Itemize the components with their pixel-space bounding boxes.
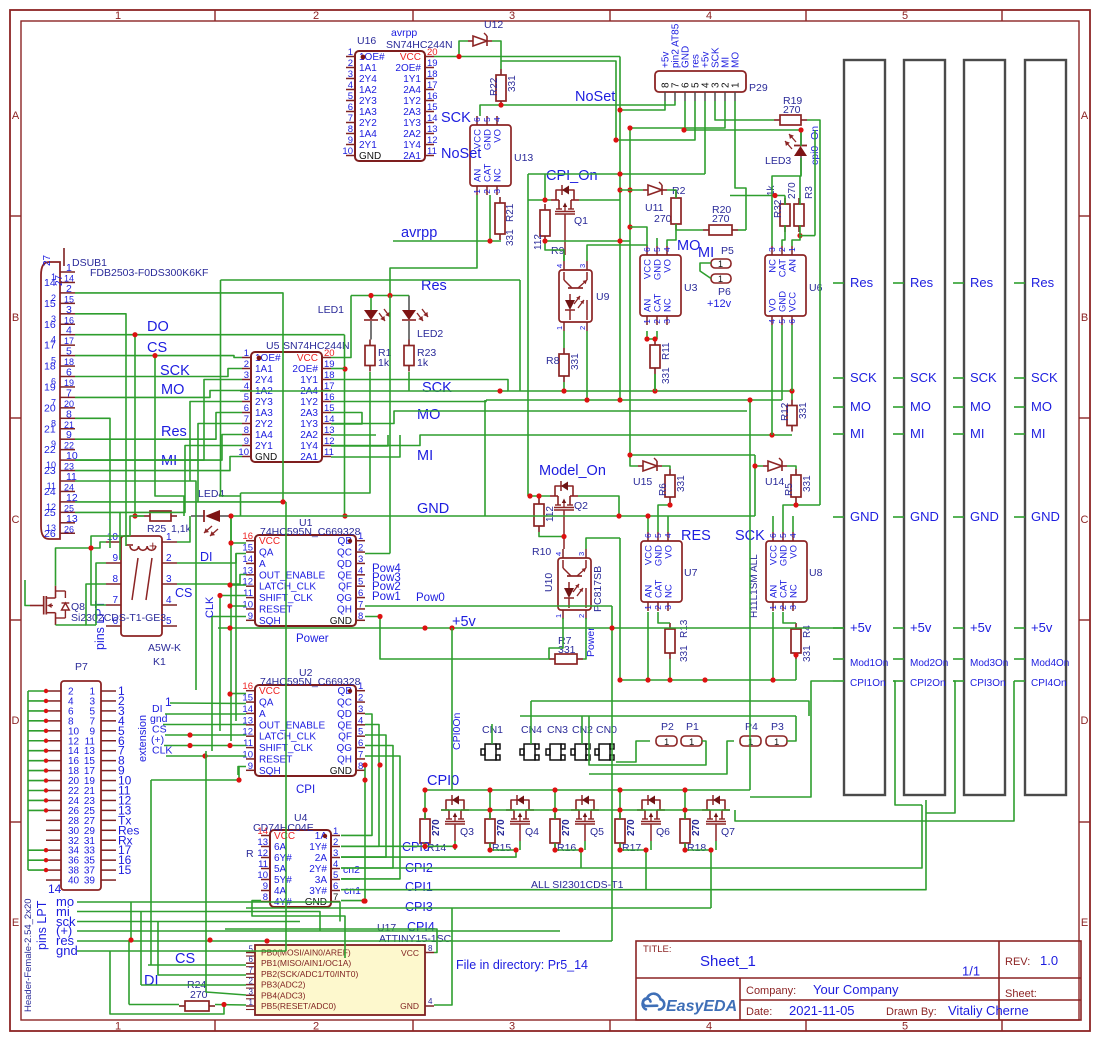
svg-text:7: 7 bbox=[358, 749, 363, 760]
svg-text:1: 1 bbox=[787, 247, 797, 252]
svg-text:Drawn By:: Drawn By: bbox=[886, 1006, 937, 1018]
IC U2 74HC595N bbox=[255, 685, 356, 776]
svg-text:4: 4 bbox=[555, 264, 564, 268]
resistor R2 bbox=[675, 192, 677, 198]
svg-text:2A2: 2A2 bbox=[403, 129, 421, 140]
svg-text:1.0: 1.0 bbox=[1040, 953, 1058, 968]
svg-text:MO: MO bbox=[910, 399, 931, 414]
svg-text:4: 4 bbox=[767, 319, 777, 324]
svg-text:11: 11 bbox=[243, 738, 253, 749]
svg-text:MO: MO bbox=[970, 399, 991, 414]
svg-text:SCK: SCK bbox=[422, 380, 452, 396]
svg-text:2A2: 2A2 bbox=[300, 430, 318, 441]
wires U2 area bbox=[165, 713, 246, 715]
svg-text:Q4: Q4 bbox=[525, 826, 539, 838]
svg-text:10: 10 bbox=[242, 599, 253, 610]
svg-text:15: 15 bbox=[118, 863, 132, 877]
svg-text:DI: DI bbox=[144, 973, 159, 989]
svg-text:4A: 4A bbox=[274, 886, 287, 897]
svg-text:LED3: LED3 bbox=[765, 155, 791, 167]
svg-text:2: 2 bbox=[358, 543, 363, 554]
svg-text:CPI4On: CPI4On bbox=[1031, 678, 1067, 689]
diode U11 bbox=[648, 185, 662, 195]
svg-text:15: 15 bbox=[242, 543, 253, 554]
svg-text:1Y3: 1Y3 bbox=[300, 419, 318, 430]
title block bbox=[636, 941, 1081, 1020]
svg-text:4: 4 bbox=[51, 335, 56, 345]
svg-text:P29: P29 bbox=[749, 82, 768, 94]
svg-text:2: 2 bbox=[348, 58, 353, 69]
wires U3 U6 opto tops and bottoms bbox=[630, 227, 647, 246]
svg-text:4: 4 bbox=[788, 533, 798, 538]
connector DSUB1 bbox=[41, 262, 60, 539]
svg-text:17: 17 bbox=[427, 80, 438, 91]
svg-text:3: 3 bbox=[358, 704, 363, 715]
svg-text:C: C bbox=[1081, 514, 1089, 526]
svg-text:3: 3 bbox=[166, 574, 172, 585]
svg-text:R25: R25 bbox=[147, 523, 166, 535]
svg-text:U14: U14 bbox=[765, 476, 784, 488]
svg-text:2: 2 bbox=[358, 693, 363, 704]
svg-text:1Y1: 1Y1 bbox=[403, 74, 421, 85]
svg-text:15: 15 bbox=[427, 102, 438, 113]
svg-text:QF: QF bbox=[338, 582, 352, 593]
svg-text:MO: MO bbox=[161, 382, 184, 398]
opto U10 PC817SB bbox=[558, 558, 591, 610]
svg-text:R4: R4 bbox=[802, 625, 813, 638]
relay K1 A5W-K bbox=[121, 536, 162, 636]
svg-text:MI: MI bbox=[910, 426, 924, 441]
svg-text:1,1k: 1,1k bbox=[171, 523, 192, 535]
svg-text:2Y4: 2Y4 bbox=[255, 375, 273, 386]
svg-text:SN74HC244N: SN74HC244N bbox=[283, 340, 350, 352]
svg-text:A: A bbox=[259, 709, 266, 720]
svg-text:D: D bbox=[12, 715, 20, 727]
svg-text:1Y2: 1Y2 bbox=[300, 397, 318, 408]
svg-text:270: 270 bbox=[561, 819, 572, 836]
svg-text:1A4: 1A4 bbox=[359, 129, 377, 140]
svg-text:270: 270 bbox=[496, 819, 507, 836]
svg-text:2: 2 bbox=[313, 1021, 319, 1033]
resistor R1 1k bbox=[369, 340, 371, 346]
svg-text:VO: VO bbox=[664, 545, 675, 559]
svg-text:1: 1 bbox=[348, 47, 353, 58]
svg-text:Q7: Q7 bbox=[721, 826, 735, 838]
svg-text:gnd: gnd bbox=[56, 943, 78, 958]
transistor Q3 bbox=[441, 809, 449, 811]
svg-text:8: 8 bbox=[244, 425, 249, 436]
svg-text:QE: QE bbox=[338, 720, 353, 731]
svg-text:6: 6 bbox=[787, 319, 797, 324]
svg-text:CPI3: CPI3 bbox=[405, 900, 433, 914]
wires U5 right side to MO/MI rows bbox=[331, 368, 345, 370]
svg-text:SQH: SQH bbox=[259, 616, 281, 627]
svg-text:LATCH_CLK: LATCH_CLK bbox=[259, 732, 316, 743]
svg-text:2: 2 bbox=[244, 359, 249, 370]
module slot rectangles bbox=[844, 60, 885, 795]
svg-text:7: 7 bbox=[249, 966, 254, 975]
svg-text:2A1: 2A1 bbox=[403, 151, 421, 162]
svg-text:VCC: VCC bbox=[400, 52, 421, 63]
svg-text:FDB2503-F0DS300K6KF: FDB2503-F0DS300K6KF bbox=[90, 267, 208, 279]
svg-text:3: 3 bbox=[244, 370, 249, 381]
svg-text:4: 4 bbox=[663, 533, 673, 538]
svg-text:NC: NC bbox=[664, 584, 675, 598]
svg-text:12: 12 bbox=[242, 727, 253, 738]
svg-text:5: 5 bbox=[249, 945, 254, 954]
svg-text:6: 6 bbox=[333, 881, 338, 892]
svg-text:cn2: cn2 bbox=[343, 864, 360, 876]
resistor R23 1k bbox=[408, 340, 410, 346]
svg-text:EasyEDA: EasyEDA bbox=[666, 998, 737, 1015]
svg-text:12: 12 bbox=[427, 135, 438, 146]
transistor Q4 bbox=[506, 809, 514, 811]
svg-text:1: 1 bbox=[664, 737, 669, 748]
svg-text:5: 5 bbox=[358, 577, 363, 588]
svg-text:5: 5 bbox=[166, 616, 172, 627]
svg-text:2Y1: 2Y1 bbox=[255, 441, 273, 452]
svg-text:CD74HC04E: CD74HC04E bbox=[253, 822, 314, 834]
svg-text:File in directory: Pr5_14: File in directory: Pr5_14 bbox=[456, 958, 588, 972]
svg-text:13: 13 bbox=[257, 837, 268, 848]
svg-text:13: 13 bbox=[46, 523, 56, 533]
svg-text:10: 10 bbox=[342, 146, 353, 157]
svg-text:331: 331 bbox=[798, 402, 809, 419]
svg-text:A: A bbox=[1081, 110, 1089, 122]
svg-text:CLK: CLK bbox=[204, 596, 216, 618]
svg-text:3: 3 bbox=[578, 264, 587, 268]
svg-text:Sheet:: Sheet: bbox=[1005, 988, 1037, 1000]
svg-text:QA: QA bbox=[259, 548, 274, 559]
svg-text:5: 5 bbox=[244, 392, 249, 403]
svg-text:MI: MI bbox=[698, 245, 714, 261]
svg-text:3: 3 bbox=[577, 552, 586, 556]
svg-text:A: A bbox=[259, 559, 266, 570]
svg-text:VO: VO bbox=[789, 545, 800, 559]
svg-text:1Y1: 1Y1 bbox=[300, 375, 318, 386]
svg-text:TITLE:: TITLE: bbox=[643, 944, 672, 955]
diode U14 bbox=[768, 461, 782, 471]
svg-text:Q5: Q5 bbox=[590, 826, 604, 838]
wires DSUB to mid bbox=[75, 293, 283, 502]
opto U8 bbox=[766, 541, 807, 602]
svg-text:Mod3On: Mod3On bbox=[970, 658, 1008, 669]
svg-text:4: 4 bbox=[348, 80, 353, 91]
svg-text:QC: QC bbox=[337, 698, 352, 709]
svg-text:1Y4: 1Y4 bbox=[403, 140, 421, 151]
svg-text:PB5(RESET/ADC0): PB5(RESET/ADC0) bbox=[261, 1001, 336, 1011]
svg-text:cn1: cn1 bbox=[344, 885, 361, 897]
svg-text:3: 3 bbox=[348, 69, 353, 80]
svg-text:18: 18 bbox=[427, 69, 438, 80]
svg-text:5: 5 bbox=[348, 91, 353, 102]
svg-text:SCK: SCK bbox=[970, 370, 997, 385]
svg-text:Sheet_1: Sheet_1 bbox=[700, 953, 756, 970]
svg-text:MO: MO bbox=[731, 52, 742, 68]
svg-text:PB4(ADC3): PB4(ADC3) bbox=[261, 990, 306, 1000]
svg-text:CS: CS bbox=[147, 340, 167, 356]
svg-text:6: 6 bbox=[643, 533, 653, 538]
svg-text:1/1: 1/1 bbox=[962, 964, 980, 979]
svg-text:10: 10 bbox=[242, 749, 253, 760]
resistor R32 1k bbox=[784, 198, 786, 204]
svg-text:QD: QD bbox=[337, 559, 352, 570]
resistor R16 270 bbox=[554, 813, 556, 819]
svg-text:VCC: VCC bbox=[788, 292, 799, 312]
svg-text:9: 9 bbox=[51, 439, 56, 449]
svg-text:NC: NC bbox=[663, 298, 674, 312]
svg-text:AN: AN bbox=[788, 259, 799, 272]
svg-text:2A: 2A bbox=[315, 853, 328, 864]
svg-text:B: B bbox=[12, 312, 19, 324]
svg-text:270: 270 bbox=[431, 819, 442, 836]
svg-text:9: 9 bbox=[248, 761, 253, 772]
resistor R3 270 bbox=[798, 198, 800, 204]
IC U1 74HC595N bbox=[255, 535, 356, 626]
svg-text:5: 5 bbox=[333, 870, 338, 881]
svg-text:16: 16 bbox=[427, 91, 438, 102]
svg-text:1k: 1k bbox=[378, 357, 390, 369]
svg-text:16: 16 bbox=[242, 531, 253, 542]
svg-text:9: 9 bbox=[66, 429, 72, 441]
svg-text:2: 2 bbox=[778, 605, 788, 610]
resistor R12 331 bbox=[791, 400, 793, 406]
svg-text:6: 6 bbox=[348, 102, 353, 113]
svg-text:331: 331 bbox=[802, 475, 813, 492]
LED LED3 bbox=[800, 131, 802, 146]
svg-text:331: 331 bbox=[507, 75, 518, 92]
svg-text:CPI4: CPI4 bbox=[407, 920, 435, 934]
svg-text:R17: R17 bbox=[622, 842, 641, 854]
svg-text:5A: 5A bbox=[274, 864, 287, 875]
svg-text:GND: GND bbox=[400, 1001, 419, 1011]
wires Q1 region verticals bbox=[796, 504, 820, 506]
svg-text:SCK: SCK bbox=[910, 370, 937, 385]
svg-text:2A4: 2A4 bbox=[403, 85, 421, 96]
svg-text:QD: QD bbox=[337, 709, 352, 720]
svg-text:1Y2: 1Y2 bbox=[403, 96, 421, 107]
transistor Q5 bbox=[571, 809, 579, 811]
svg-text:9: 9 bbox=[244, 436, 249, 447]
svg-text:MO: MO bbox=[1031, 399, 1052, 414]
svg-text:SCK: SCK bbox=[850, 370, 877, 385]
transistor Q8 SI2302 bbox=[30, 605, 44, 607]
transistor Q1 bbox=[551, 199, 559, 201]
svg-text:26: 26 bbox=[64, 524, 74, 534]
svg-text:3: 3 bbox=[767, 247, 777, 252]
svg-text:3: 3 bbox=[249, 987, 254, 996]
svg-text:112: 112 bbox=[533, 234, 544, 250]
svg-text:PC817SB: PC817SB bbox=[592, 566, 604, 612]
svg-text:8: 8 bbox=[358, 611, 363, 622]
svg-text:U5: U5 bbox=[266, 340, 280, 352]
svg-text:39: 39 bbox=[84, 876, 96, 887]
svg-text:9: 9 bbox=[348, 135, 353, 146]
diode U12 bbox=[473, 36, 487, 46]
svg-text:U8: U8 bbox=[809, 567, 823, 579]
svg-text:4: 4 bbox=[554, 552, 563, 556]
svg-text:5: 5 bbox=[66, 346, 72, 358]
svg-text:GND: GND bbox=[970, 509, 999, 524]
svg-text:2: 2 bbox=[482, 189, 492, 194]
svg-text:3: 3 bbox=[662, 319, 672, 324]
svg-text:1Y#: 1Y# bbox=[309, 842, 327, 853]
diode U15 bbox=[643, 461, 657, 471]
svg-text:1: 1 bbox=[249, 998, 254, 1007]
svg-text:2: 2 bbox=[653, 605, 663, 610]
svg-text:5: 5 bbox=[777, 319, 787, 324]
svg-text:4: 4 bbox=[358, 715, 363, 726]
svg-text:GND: GND bbox=[359, 151, 381, 162]
IC U5 SN74HC244N bbox=[251, 352, 322, 462]
svg-text:MI: MI bbox=[1031, 426, 1045, 441]
svg-text:QG: QG bbox=[336, 743, 352, 754]
svg-text:NC: NC bbox=[789, 584, 800, 598]
svg-text:331: 331 bbox=[505, 229, 516, 246]
resistor R14 270 bbox=[424, 813, 426, 819]
svg-text:MI: MI bbox=[850, 426, 864, 441]
svg-text:avrpp: avrpp bbox=[391, 27, 417, 39]
svg-text:7: 7 bbox=[244, 414, 249, 425]
svg-text:6: 6 bbox=[51, 377, 56, 387]
svg-text:3: 3 bbox=[663, 605, 673, 610]
svg-text:PB3(ADC2): PB3(ADC2) bbox=[261, 980, 306, 990]
svg-text:OUT_ENABLE: OUT_ENABLE bbox=[259, 570, 325, 581]
svg-text:1: 1 bbox=[244, 348, 249, 359]
LED LED2 bbox=[402, 310, 416, 320]
svg-text:11: 11 bbox=[258, 859, 268, 870]
svg-text:P5: P5 bbox=[721, 245, 734, 257]
svg-text:GND: GND bbox=[417, 501, 449, 517]
svg-text:2: 2 bbox=[777, 247, 787, 252]
svg-text:R8: R8 bbox=[546, 355, 560, 367]
svg-text:1: 1 bbox=[731, 82, 742, 88]
svg-text:LED1: LED1 bbox=[318, 304, 344, 316]
svg-text:P4: P4 bbox=[745, 721, 758, 733]
svg-text:40: 40 bbox=[68, 876, 80, 887]
resistor R18 270 bbox=[684, 813, 686, 819]
svg-text:16: 16 bbox=[242, 681, 253, 692]
svg-text:CPI: CPI bbox=[296, 784, 315, 796]
svg-text:7: 7 bbox=[348, 113, 353, 124]
IC U4 CD74HC04E bbox=[270, 830, 331, 907]
svg-text:3: 3 bbox=[51, 314, 56, 324]
svg-text:5: 5 bbox=[482, 117, 492, 122]
resistor R24 270 bbox=[179, 1005, 185, 1007]
svg-text:RESET: RESET bbox=[259, 754, 292, 765]
svg-text:2A3: 2A3 bbox=[300, 408, 318, 419]
svg-text:Q2: Q2 bbox=[574, 500, 588, 512]
svg-text:4: 4 bbox=[66, 325, 72, 337]
svg-text:Your Company: Your Company bbox=[813, 982, 899, 997]
svg-text:D: D bbox=[1081, 715, 1089, 727]
svg-text:C: C bbox=[12, 514, 20, 526]
svg-text:331: 331 bbox=[558, 644, 576, 656]
svg-text:GND: GND bbox=[910, 509, 939, 524]
svg-text:6: 6 bbox=[472, 117, 482, 122]
resistor R13 331 bbox=[669, 623, 671, 629]
svg-text:6: 6 bbox=[358, 588, 363, 599]
svg-text:1: 1 bbox=[643, 605, 653, 610]
svg-text:6: 6 bbox=[768, 533, 778, 538]
svg-text:U7: U7 bbox=[684, 567, 698, 579]
svg-text:CS: CS bbox=[175, 586, 192, 600]
svg-text:2021-11-05: 2021-11-05 bbox=[789, 1003, 855, 1018]
opto U6 (mirrored) bbox=[765, 255, 806, 316]
svg-text:19: 19 bbox=[427, 58, 438, 69]
svg-text:1A3: 1A3 bbox=[255, 408, 273, 419]
connector P29 bbox=[655, 71, 746, 92]
svg-text:P3: P3 bbox=[771, 721, 784, 733]
svg-text:4: 4 bbox=[706, 10, 712, 22]
svg-text:8: 8 bbox=[112, 574, 118, 585]
svg-text:270: 270 bbox=[712, 213, 730, 225]
svg-text:6A: 6A bbox=[274, 842, 287, 853]
svg-text:MI: MI bbox=[161, 453, 177, 469]
svg-text:2: 2 bbox=[577, 614, 586, 618]
svg-text:2: 2 bbox=[249, 977, 254, 986]
transistor Q7 bbox=[702, 809, 710, 811]
svg-text:10: 10 bbox=[46, 460, 56, 470]
resistor R9 112 bbox=[544, 204, 546, 210]
svg-text:6Y#: 6Y# bbox=[274, 853, 292, 864]
svg-text:VO: VO bbox=[663, 259, 674, 273]
svg-text:3A: 3A bbox=[315, 875, 328, 886]
svg-text:331: 331 bbox=[679, 645, 690, 662]
svg-text:P2: P2 bbox=[661, 721, 674, 733]
svg-text:VO: VO bbox=[493, 129, 504, 143]
svg-text:Date:: Date: bbox=[746, 1006, 772, 1018]
svg-text:6: 6 bbox=[249, 955, 254, 964]
svg-text:Mod4On: Mod4On bbox=[1031, 658, 1069, 669]
svg-text:U12: U12 bbox=[484, 19, 503, 31]
svg-text:R15: R15 bbox=[492, 842, 511, 854]
EasyEDA logo bbox=[643, 994, 665, 1010]
svg-text:P1: P1 bbox=[686, 721, 699, 733]
connector P7 header 2x20 bbox=[61, 681, 101, 890]
resistor R20 270 bbox=[703, 229, 709, 231]
svg-text:Pow1: Pow1 bbox=[372, 591, 401, 603]
LED LED4 bbox=[191, 515, 204, 517]
svg-text:P7: P7 bbox=[75, 661, 88, 673]
IC U17 ATTINY15-1SC bbox=[255, 945, 425, 1015]
svg-text:4: 4 bbox=[706, 1021, 712, 1033]
svg-text:+5v: +5v bbox=[850, 620, 872, 635]
svg-text:GND: GND bbox=[1031, 509, 1060, 524]
svg-text:SCK: SCK bbox=[1031, 370, 1058, 385]
svg-text:2OE#: 2OE# bbox=[395, 63, 421, 74]
svg-text:11: 11 bbox=[47, 481, 56, 491]
svg-text:U13: U13 bbox=[514, 152, 533, 164]
svg-text:8: 8 bbox=[348, 124, 353, 135]
svg-text:A: A bbox=[12, 110, 20, 122]
svg-text:27: 27 bbox=[42, 254, 53, 266]
svg-text:R21: R21 bbox=[505, 203, 516, 222]
svg-text:1A4: 1A4 bbox=[255, 430, 273, 441]
svg-text:Model_On: Model_On bbox=[539, 463, 606, 479]
resistor R4 331 bbox=[795, 623, 797, 629]
svg-text:4: 4 bbox=[492, 117, 502, 122]
svg-text:331: 331 bbox=[570, 353, 581, 370]
svg-text:74HC595N_C669328: 74HC595N_C669328 bbox=[260, 676, 361, 688]
svg-text:QH: QH bbox=[337, 754, 352, 765]
svg-text:P6: P6 bbox=[718, 286, 731, 298]
svg-text:OUT_ENABLE: OUT_ENABLE bbox=[259, 720, 325, 731]
svg-text:1: 1 bbox=[554, 614, 563, 618]
svg-text:U3: U3 bbox=[684, 282, 698, 294]
resistor R19 270 bbox=[774, 119, 780, 121]
svg-text:VCC: VCC bbox=[297, 353, 318, 364]
